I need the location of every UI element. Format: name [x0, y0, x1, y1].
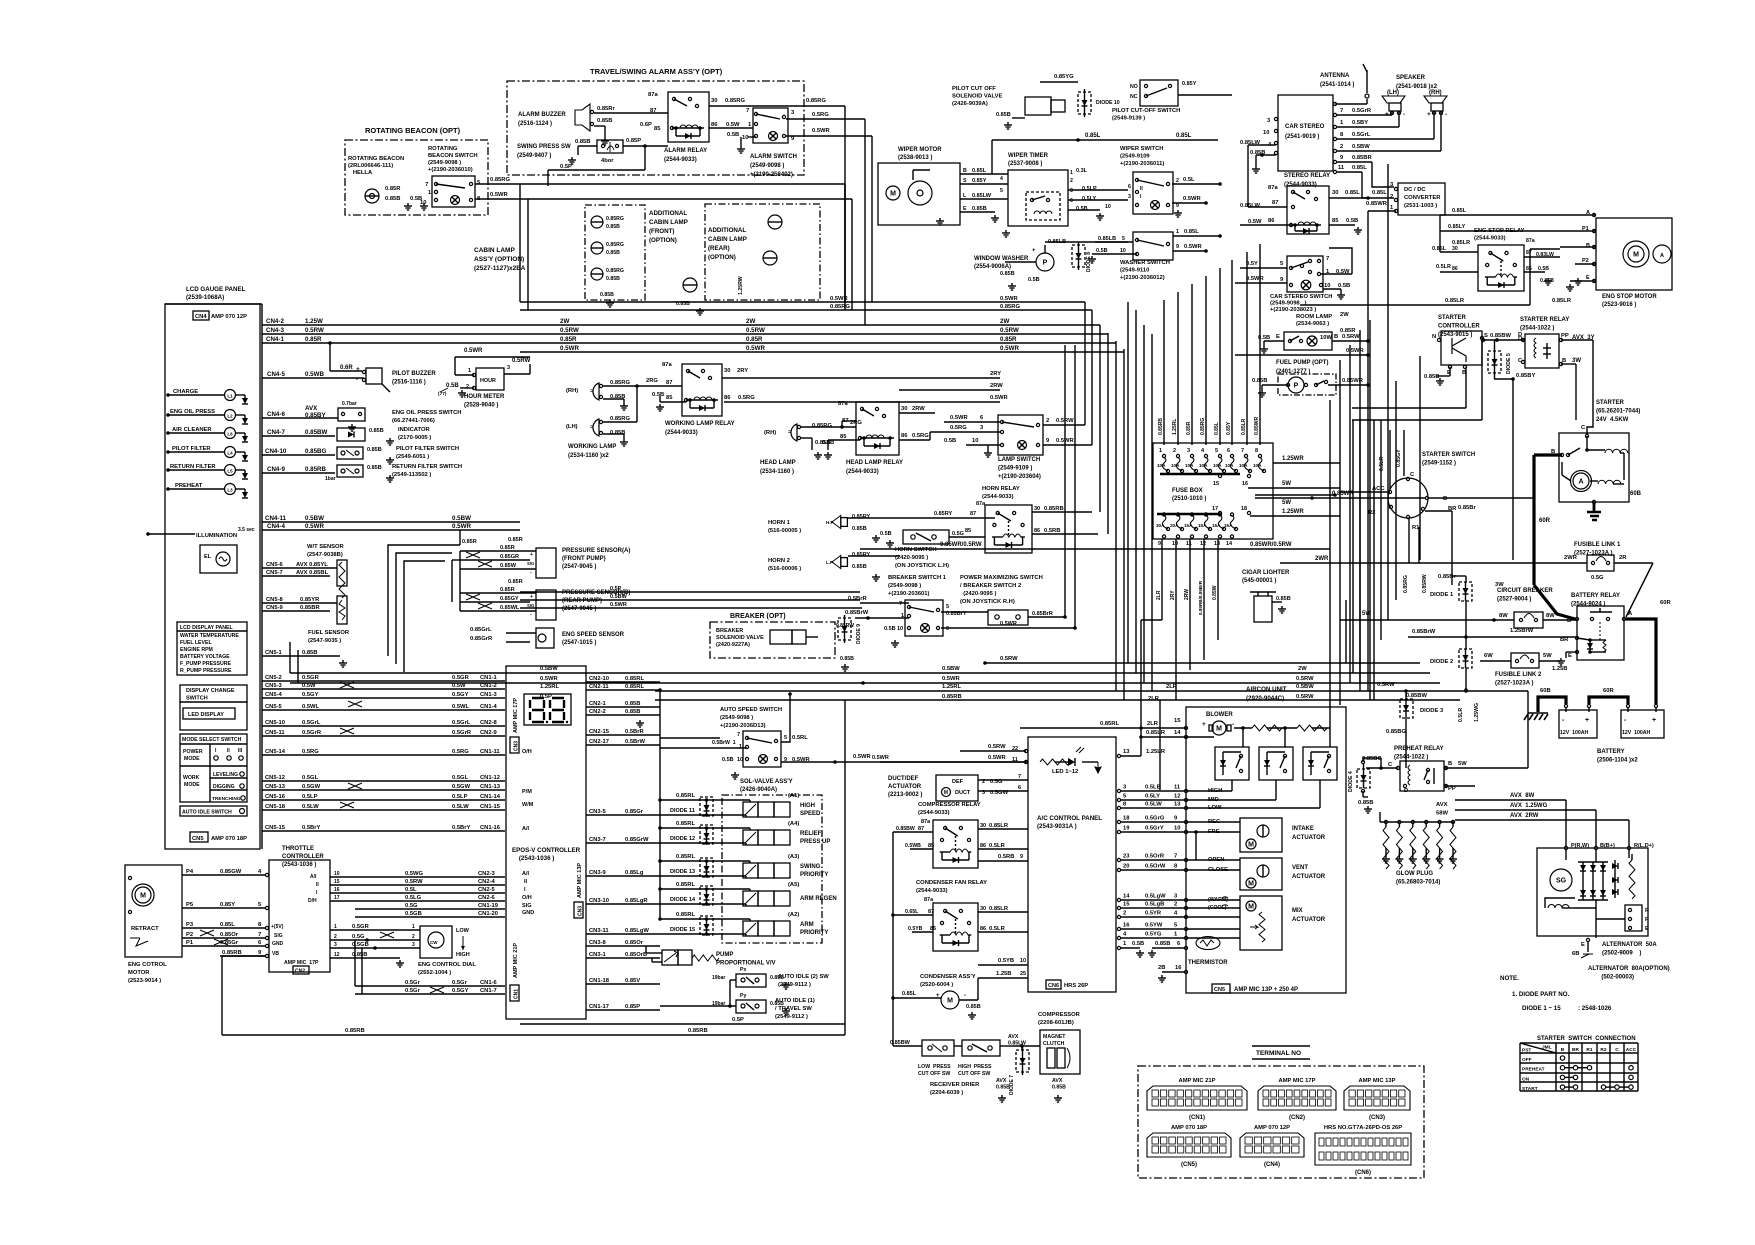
- eng control motor wires: [182, 869, 269, 958]
- svg-text:1: 1: [1159, 448, 1162, 454]
- svg-text:5W: 5W: [1282, 481, 1291, 487]
- svg-text:(2527-1127)x2EA: (2527-1127)x2EA: [474, 265, 526, 272]
- svg-text:0.5G: 0.5G: [352, 934, 365, 940]
- svg-text:0.5RW: 0.5RW: [1377, 682, 1395, 688]
- svg-text:2: 2: [412, 934, 415, 940]
- svg-text:ACTUATOR: ACTUATOR: [1292, 917, 1326, 923]
- alarm assy output wires: [804, 106, 872, 325]
- svg-text:AIR CLEANER: AIR CLEANER: [172, 427, 212, 433]
- svg-text:0.85B: 0.85B: [610, 430, 625, 436]
- svg-text:ENG STOP MOTOR: ENG STOP MOTOR: [1602, 294, 1657, 300]
- horn switch: [880, 530, 985, 569]
- svg-text:AVX 1.25WG: AVX 1.25WG: [1510, 803, 1548, 809]
- hour meter: [438, 348, 531, 409]
- svg-text:0.85LgW: 0.85LgW: [625, 928, 649, 934]
- battery relay: [1552, 593, 1633, 672]
- svg-text:PILOT BUZZER: PILOT BUZZER: [392, 371, 436, 377]
- svg-text:15A: 15A: [1224, 523, 1233, 528]
- svg-text:5W: 5W: [1543, 653, 1552, 659]
- svg-text:0.5GY: 0.5GY: [302, 692, 319, 698]
- svg-text:3: 3: [412, 942, 415, 948]
- svg-text:RETURN FILTER SWITCH: RETURN FILTER SWITCH: [392, 464, 462, 470]
- svg-text:(2547-1015 ): (2547-1015 ): [562, 640, 596, 646]
- svg-text:+(2190-2036010): +(2190-2036010): [428, 167, 473, 173]
- svg-text:AUTO SPEED SWITCH: AUTO SPEED SWITCH: [720, 707, 782, 713]
- svg-text:86: 86: [1268, 218, 1275, 224]
- svg-text:B: B: [1448, 761, 1452, 767]
- svg-text:3: 3: [1070, 188, 1073, 194]
- svg-text:0.85LR: 0.85LR: [989, 823, 1009, 829]
- svg-text:30: 30: [901, 406, 907, 412]
- svg-text:PILOT FILTER: PILOT FILTER: [172, 446, 211, 452]
- svg-text:CN3-10: CN3-10: [589, 898, 609, 904]
- svg-text:0.5GW: 0.5GW: [302, 784, 321, 790]
- svg-text:CN1-12: CN1-12: [480, 775, 500, 781]
- svg-text:0.85L: 0.85L: [1184, 229, 1199, 235]
- main horizontal buses y302-310: [520, 296, 1356, 334]
- svg-text:18: 18: [1241, 506, 1247, 512]
- svg-text:10: 10: [334, 871, 340, 877]
- svg-text:(2544-9033): (2544-9033): [916, 888, 948, 894]
- svg-text:13: 13: [1214, 541, 1220, 547]
- svg-text:0.85B: 0.85B: [852, 564, 867, 570]
- svg-text:0.85RL: 0.85RL: [676, 912, 695, 918]
- svg-text:(502-00003): (502-00003): [1588, 975, 1634, 981]
- svg-text:85: 85: [928, 843, 934, 849]
- svg-text:85: 85: [666, 395, 673, 401]
- svg-text:12V 100AH: 12V 100AH: [1622, 730, 1651, 736]
- svg-text:(2510-1010 ): (2510-1010 ): [1172, 496, 1206, 502]
- svg-text:PP: PP: [1561, 333, 1569, 339]
- svg-text:0.85B: 0.85B: [996, 1085, 1010, 1091]
- svg-text:NC: NC: [1130, 94, 1138, 100]
- svg-text:L6: L6: [227, 432, 233, 437]
- right bus verticals upper: [1330, 320, 1370, 700]
- svg-text:0.5W: 0.5W: [726, 122, 740, 128]
- alarm buzzer: [518, 92, 668, 145]
- svg-text:20A: 20A: [1170, 523, 1179, 528]
- svg-text:FUEL PUMP (OPT): FUEL PUMP (OPT): [1276, 360, 1328, 366]
- svg-text:60R: 60R: [1603, 688, 1614, 694]
- cn5 wire rows: [262, 650, 505, 831]
- sol valves A1-A2: [658, 688, 836, 936]
- svg-text:CN5-14: CN5-14: [265, 749, 286, 755]
- svg-text:0.85RL: 0.85RL: [676, 821, 695, 827]
- svg-text:+: +: [356, 366, 360, 373]
- svg-text:10A: 10A: [1157, 463, 1166, 468]
- svg-text:3W: 3W: [1495, 582, 1504, 588]
- svg-text:0.85RB: 0.85RB: [688, 1028, 708, 1034]
- svg-text:(LH): (LH): [1387, 90, 1399, 96]
- svg-text:P/M: P/M: [522, 789, 532, 795]
- svg-text:HEAD LAMP RELAY: HEAD LAMP RELAY: [846, 460, 903, 466]
- svg-text:(2426-9039A): (2426-9039A): [952, 101, 988, 107]
- svg-text:(2920-9044C): (2920-9044C): [1246, 695, 1284, 702]
- svg-text:87: 87: [650, 108, 656, 114]
- svg-text:0.5LG: 0.5LG: [405, 895, 422, 901]
- svg-text:0.5Gr: 0.5Gr: [405, 980, 421, 986]
- svg-text:16: 16: [1242, 481, 1248, 487]
- svg-text:CN1-16: CN1-16: [480, 825, 501, 831]
- starter switch connection table: [1520, 1036, 1638, 1092]
- compressor relay 0.5RB wire: [978, 854, 1028, 861]
- breaker switch 1: [845, 575, 949, 647]
- svg-text:Py: Py: [740, 993, 746, 999]
- svg-text:87: 87: [928, 909, 934, 915]
- svg-text:LAMP SWITCH: LAMP SWITCH: [998, 457, 1040, 463]
- svg-text:85: 85: [840, 434, 847, 440]
- svg-text:ENG OIL PRESS: ENG OIL PRESS: [170, 409, 215, 415]
- svg-text:0.85OrB: 0.85OrB: [625, 952, 647, 958]
- svg-text:(2547-9045 ): (2547-9045 ): [562, 606, 596, 612]
- svg-text:0.85RG: 0.85RG: [725, 98, 745, 104]
- svg-text:0.85LR: 0.85LR: [1452, 240, 1470, 246]
- svg-text:SIG: SIG: [527, 561, 534, 566]
- svg-text:(2549-9139 ): (2549-9139 ): [1112, 116, 1145, 122]
- svg-text:86: 86: [980, 843, 986, 849]
- svg-text:AUTO IDLE SWITCH: AUTO IDLE SWITCH: [182, 810, 232, 816]
- svg-text:O/H: O/H: [522, 895, 532, 901]
- fuse box upper row: [1153, 443, 1273, 539]
- svg-text:(A1): (A1): [788, 793, 799, 799]
- svg-text:2: 2: [1173, 448, 1176, 454]
- svg-text:P2: P2: [186, 932, 193, 938]
- a/c panel led row: [872, 744, 1101, 775]
- svg-text:3W: 3W: [1572, 358, 1581, 364]
- 0.85BW riser: [891, 832, 895, 1046]
- svg-text:A/C CONTROL PANEL: A/C CONTROL PANEL: [1037, 815, 1102, 822]
- svg-text:VB: VB: [272, 951, 279, 957]
- svg-text:CN3-7: CN3-7: [589, 837, 606, 843]
- svg-text:0.5RW: 0.5RW: [512, 358, 531, 364]
- svg-text:ADDITIONAL: ADDITIONAL: [708, 227, 746, 234]
- svg-text:+(2190-2036012): +(2190-2036012): [1120, 275, 1165, 281]
- svg-text:(2204-6039 ): (2204-6039 ): [930, 1090, 963, 1096]
- svg-text:7: 7: [899, 601, 902, 607]
- svg-text:3.5 sec: 3.5 sec: [238, 527, 255, 533]
- svg-text:0.85B: 0.85B: [606, 224, 620, 230]
- svg-text:S: S: [963, 178, 967, 184]
- svg-text:(2543-9015 ): (2543-9015 ): [1438, 332, 1472, 338]
- svg-text:AVX: AVX: [1436, 802, 1448, 808]
- svg-text:OFF: OFF: [1522, 1057, 1532, 1063]
- svg-text:0.85WR: 0.85WR: [1366, 201, 1388, 207]
- svg-text:0.5RW: 0.5RW: [746, 327, 765, 334]
- svg-text:L2: L2: [227, 414, 233, 419]
- svg-text:0.5B: 0.5B: [884, 626, 896, 632]
- pilot buzzer: [340, 365, 436, 392]
- svg-text:(OPTION): (OPTION): [708, 254, 736, 261]
- svg-text:CN5-3: CN5-3: [265, 683, 283, 689]
- svg-text:0.85B: 0.85B: [1155, 941, 1170, 947]
- svg-text:6: 6: [1018, 785, 1021, 791]
- svg-text:0.5WR: 0.5WR: [746, 345, 765, 352]
- svg-text:ALARM SWITCH: ALARM SWITCH: [750, 154, 797, 160]
- svg-text:(2420-9227A): (2420-9227A): [716, 642, 750, 648]
- svg-text:ROTATING BEACON (OPT): ROTATING BEACON (OPT): [365, 126, 461, 135]
- svg-text:=: =: [590, 425, 593, 431]
- svg-text:CN5-15: CN5-15: [265, 825, 286, 831]
- svg-text:AVX: AVX: [305, 405, 318, 412]
- svg-text:18: 18: [1123, 816, 1130, 822]
- svg-text:CABIN LAMP: CABIN LAMP: [474, 247, 515, 254]
- svg-text:BREAKER (OPT): BREAKER (OPT): [730, 613, 786, 620]
- svg-text:0.5W: 0.5W: [452, 683, 466, 689]
- svg-text:CN5-4: CN5-4: [265, 692, 283, 698]
- svg-text:0.5Gr: 0.5Gr: [452, 980, 468, 986]
- fuel pump: [1252, 360, 1370, 397]
- svg-text:0.85Y: 0.85Y: [220, 902, 235, 908]
- svg-text:2WR: 2WR: [1315, 556, 1329, 562]
- svg-text:FUSE BOX: FUSE BOX: [1172, 488, 1203, 494]
- svg-text:1: 1: [739, 744, 742, 750]
- svg-text:RETRACT: RETRACT: [131, 926, 159, 932]
- svg-text:(CN3): (CN3): [1369, 1115, 1385, 1121]
- svg-text:2: 2: [1046, 418, 1049, 424]
- svg-text:0.85BG: 0.85BG: [1362, 756, 1382, 762]
- svg-text:2LR: 2LR: [1148, 696, 1160, 702]
- svg-text:CN6: CN6: [1048, 983, 1059, 989]
- svg-text:0.5B: 0.5B: [652, 392, 664, 398]
- svg-text:7: 7: [1340, 108, 1343, 114]
- svg-text:0.5RG: 0.5RG: [302, 749, 319, 755]
- washer switch: [1088, 229, 1222, 281]
- svg-text:0.85RG: 0.85RG: [806, 98, 826, 104]
- svg-text:AVX 0.85BL: AVX 0.85BL: [296, 570, 329, 576]
- svg-text:0.5BW: 0.5BW: [1296, 684, 1314, 690]
- svg-text:(CN1): (CN1): [1189, 1115, 1205, 1121]
- wiper switch: [1120, 146, 1222, 217]
- svg-text:BR: BR: [1572, 1047, 1579, 1053]
- svg-text:(2527-9004 ): (2527-9004 ): [1497, 597, 1531, 603]
- svg-text:0.5GrL: 0.5GrL: [302, 720, 321, 726]
- svg-text:STARTER SWITCH: STARTER SWITCH: [1422, 452, 1475, 458]
- a/c panel to aircon rows: [1117, 785, 1228, 940]
- svg-text:CN1-19: CN1-19: [478, 903, 499, 909]
- svg-text:0.85B: 0.85B: [966, 1004, 981, 1010]
- svg-text:0.5WR: 0.5WR: [610, 602, 627, 608]
- svg-text:CN4-1: CN4-1: [266, 336, 284, 343]
- svg-text:RELIEF: RELIEF: [800, 831, 822, 837]
- starter controller S wire: [1483, 332, 1525, 342]
- connector CN3: [1344, 1078, 1410, 1121]
- svg-text:ENG OIL PRESS SWITCH: ENG OIL PRESS SWITCH: [392, 410, 461, 416]
- svg-text:DEF: DEF: [952, 779, 964, 785]
- svg-text:0.5WB: 0.5WB: [905, 843, 921, 849]
- svg-text:E: E: [963, 206, 967, 212]
- svg-text:(CN2): (CN2): [1289, 1115, 1305, 1121]
- svg-text:DUCT/DEF: DUCT/DEF: [888, 776, 919, 782]
- svg-text:LOW PRESS: LOW PRESS: [918, 1064, 951, 1070]
- diode 4: [1348, 758, 1381, 813]
- svg-text:DIODE 9: DIODE 9: [856, 624, 862, 644]
- rear cabin lamps: [676, 215, 782, 315]
- svg-text:0.85Gr: 0.85Gr: [625, 809, 644, 815]
- svg-text:0.5RW: 0.5RW: [1000, 327, 1019, 334]
- connector CN1: [1147, 1078, 1247, 1121]
- svg-text:STARTER: STARTER: [1596, 400, 1625, 406]
- cn5 connector label: [190, 832, 247, 842]
- svg-text:1bar: 1bar: [325, 476, 336, 482]
- svg-text:M: M: [890, 191, 896, 198]
- svg-text:0.85RG: 0.85RG: [490, 177, 510, 183]
- svg-text:0.5B: 0.5B: [1096, 248, 1108, 254]
- fuse box below verticals: [1141, 539, 1218, 700]
- svg-text:0.5B: 0.5B: [880, 531, 892, 537]
- svg-text:(2520-6004 ): (2520-6004 ): [920, 982, 953, 988]
- svg-text:HORN 2: HORN 2: [768, 558, 790, 564]
- svg-text:ARM: ARM: [800, 922, 814, 928]
- svg-text:24V 4.5KW: 24V 4.5KW: [1596, 417, 1629, 423]
- svg-text:0.5GR: 0.5GR: [352, 924, 370, 930]
- head lamp: [760, 420, 862, 475]
- svg-text:15: 15: [1174, 718, 1181, 724]
- svg-text:0.5GrG: 0.5GrG: [1145, 816, 1165, 822]
- svg-text:(CN6): (CN6): [1355, 1170, 1371, 1176]
- svg-text:PILOT CUT-OFF SWITCH: PILOT CUT-OFF SWITCH: [1112, 108, 1180, 114]
- svg-text:0.5P: 0.5P: [540, 694, 552, 700]
- svg-text:0.85BR: 0.85BR: [1352, 155, 1372, 161]
- battery thick cables: [1524, 585, 1671, 720]
- svg-text:LOW: LOW: [456, 928, 470, 934]
- svg-text:0.85RW: 0.85RW: [1422, 574, 1428, 593]
- speakers: [1382, 75, 1447, 118]
- svg-text:CN4-7: CN4-7: [267, 429, 285, 436]
- svg-text:MAGNET: MAGNET: [1043, 1034, 1066, 1040]
- svg-text:0.5BW: 0.5BW: [540, 666, 558, 672]
- svg-text:0.85RY: 0.85RY: [852, 552, 870, 558]
- svg-text:0.85BW: 0.85BW: [896, 826, 915, 832]
- svg-text:S: S: [1484, 333, 1488, 339]
- aircon rec/fre feed: [1186, 822, 1240, 870]
- svg-text:0.85R: 0.85R: [500, 587, 515, 593]
- svg-text:0.85L: 0.85L: [220, 922, 235, 928]
- svg-text:0.85RL: 0.85RL: [676, 854, 695, 860]
- mid horizontal buses y660-700: [290, 642, 1528, 700]
- svg-text:CN1-3: CN1-3: [480, 692, 498, 698]
- svg-text:0.85B: 0.85B: [385, 196, 400, 202]
- diode 10: [1040, 74, 1120, 117]
- svg-text:CN5-11: CN5-11: [265, 730, 285, 736]
- svg-text:0.85GY: 0.85GY: [500, 596, 519, 602]
- epos right rows: [586, 676, 660, 1010]
- led display: [180, 702, 247, 730]
- svg-text:(66.27441-7006): (66.27441-7006): [392, 418, 435, 424]
- wiper timer: [1000, 153, 1131, 237]
- svg-text:19bar: 19bar: [712, 975, 725, 981]
- connector CN6: [1315, 1125, 1411, 1176]
- svg-text:87a: 87a: [662, 362, 672, 368]
- svg-text:(2534-9063 ): (2534-9063 ): [1296, 321, 1329, 327]
- svg-text:0.5WR: 0.5WR: [1246, 276, 1265, 282]
- svg-text:(2544-9033): (2544-9033): [1474, 236, 1506, 242]
- svg-text:+: +: [1032, 248, 1036, 254]
- svg-text:0.5GB: 0.5GB: [405, 911, 422, 917]
- svg-text:CN2-17: CN2-17: [589, 739, 609, 745]
- svg-text:AVX 2RW: AVX 2RW: [1510, 813, 1539, 819]
- svg-text:FUSIBLE LINK 2: FUSIBLE LINK 2: [1495, 672, 1542, 678]
- svg-text:CN1-14: CN1-14: [480, 794, 501, 800]
- svg-text:C: C: [1615, 1047, 1619, 1053]
- svg-text:0.5GrR: 0.5GrR: [452, 730, 472, 736]
- svg-text:+(2190-203604): +(2190-203604): [998, 474, 1041, 480]
- eng speed sensor: [470, 627, 625, 648]
- svg-text:0.85GrL: 0.85GrL: [470, 627, 492, 633]
- svg-text:15A: 15A: [1212, 523, 1221, 528]
- svg-text:60B: 60B: [1630, 491, 1642, 497]
- svg-text:E: E: [1581, 942, 1585, 948]
- svg-text:2W: 2W: [560, 318, 569, 325]
- svg-text:+(2190-2036011): +(2190-2036011): [1120, 161, 1164, 167]
- svg-text:2: 2: [1070, 178, 1073, 184]
- svg-text:4bor: 4bor: [601, 158, 614, 164]
- svg-text:D: D: [1404, 788, 1408, 794]
- svg-text:0.85B: 0.85B: [1424, 374, 1439, 380]
- svg-text:0.85RG: 0.85RG: [610, 416, 630, 422]
- svg-text:9: 9: [1158, 541, 1161, 547]
- svg-text:/ TRAVEL SW: / TRAVEL SW: [775, 1006, 812, 1012]
- glow plug: [1380, 812, 1457, 886]
- svg-text:1.25RL: 1.25RL: [1172, 419, 1178, 435]
- svg-text:+: +: [1427, 111, 1431, 118]
- svg-text:2: 2: [1340, 144, 1343, 150]
- svg-text:HIGH: HIGH: [456, 952, 470, 958]
- svg-text:10: 10: [1020, 958, 1026, 964]
- svg-text:HORN RELAY: HORN RELAY: [982, 486, 1020, 492]
- svg-text:0.85L: 0.85L: [1345, 190, 1360, 196]
- svg-text:0.5BrR: 0.5BrR: [848, 596, 868, 602]
- svg-text:(2539-1068A): (2539-1068A): [186, 294, 224, 301]
- svg-text:1.25WG: 1.25WG: [1474, 703, 1480, 722]
- svg-text:0.5BrY: 0.5BrY: [302, 825, 321, 831]
- svg-text:DIODE 7: DIODE 7: [1009, 1075, 1015, 1095]
- fusible link 2: [1480, 653, 1560, 687]
- svg-text:(2208-601JB): (2208-601JB): [1038, 1020, 1074, 1026]
- svg-text:0.85BrW: 0.85BrW: [845, 610, 869, 616]
- svg-text:DISPLAY CHANGE: DISPLAY CHANGE: [186, 688, 235, 694]
- svg-text:FUSIBLE LINK 1: FUSIBLE LINK 1: [1574, 542, 1621, 548]
- svg-text:2: 2: [1123, 911, 1126, 917]
- svg-text:CN3: CN3: [514, 741, 520, 751]
- svg-text:0.5WR: 0.5WR: [872, 755, 889, 761]
- svg-text:+: +: [1202, 721, 1206, 728]
- svg-text:8W: 8W: [1499, 613, 1508, 619]
- svg-text:0.5WG: 0.5WG: [405, 871, 424, 877]
- svg-text:0.85B: 0.85B: [972, 206, 987, 212]
- svg-text:WORK: WORK: [183, 775, 200, 781]
- svg-text:AMP 070 12P: AMP 070 12P: [1254, 1125, 1290, 1131]
- svg-text:1.25BrW: 1.25BrW: [1510, 628, 1534, 634]
- svg-text:87: 87: [970, 511, 976, 517]
- svg-text:WASHER SWITCH: WASHER SWITCH: [1120, 260, 1170, 266]
- svg-text:0.85GW: 0.85GW: [220, 869, 242, 875]
- svg-text:HORN 1: HORN 1: [768, 520, 791, 526]
- svg-text:POWER MAXIMIZING SWITCH: POWER MAXIMIZING SWITCH: [960, 575, 1043, 581]
- svg-text:0.5BrR: 0.5BrR: [625, 729, 645, 735]
- svg-text:0.85BrR: 0.85BrR: [1032, 611, 1053, 617]
- svg-text:0.85BR: 0.85BR: [300, 605, 320, 611]
- svg-text:GND: GND: [272, 941, 284, 947]
- svg-text:86: 86: [980, 926, 986, 932]
- svg-text:7: 7: [1326, 256, 1329, 262]
- svg-text:L.F: L.F: [826, 560, 833, 565]
- svg-text:10A: 10A: [1213, 463, 1222, 468]
- svg-text:0.65L: 0.65L: [905, 909, 919, 915]
- svg-text:10: 10: [1324, 283, 1330, 289]
- svg-text:6W: 6W: [1484, 653, 1493, 659]
- svg-text:(77): (77): [438, 391, 447, 397]
- svg-text:SWING: SWING: [800, 864, 821, 870]
